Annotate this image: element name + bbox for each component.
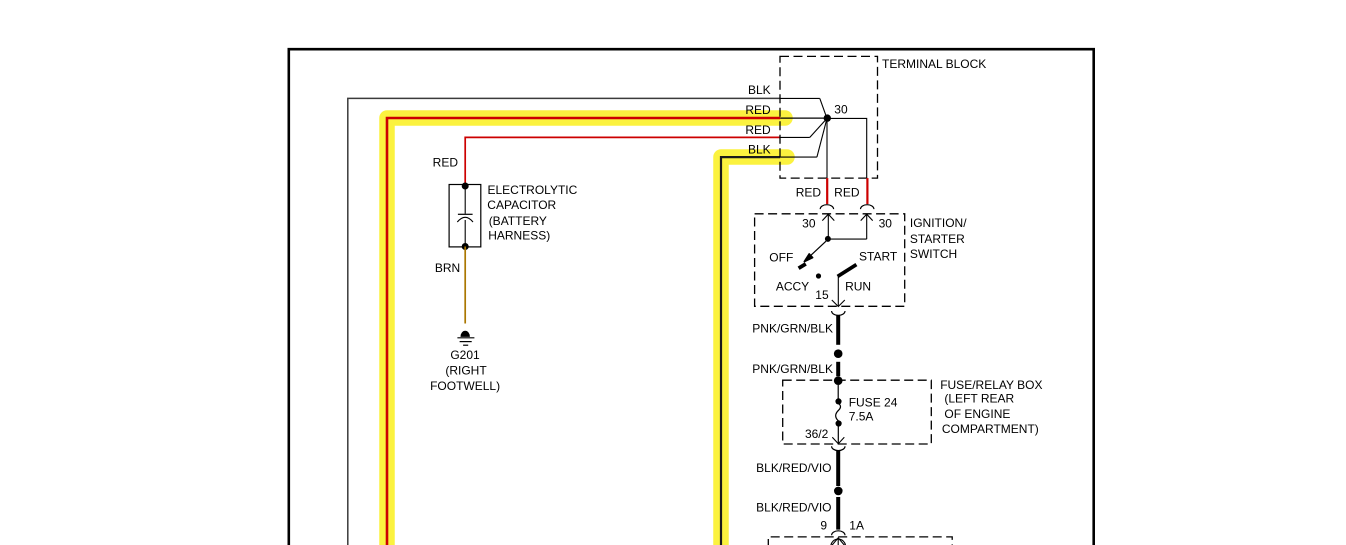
svg-text:FUSE 24: FUSE 24 bbox=[849, 395, 898, 409]
wire BLK (gray) left feed bbox=[348, 98, 780, 545]
ground G201 symbol bbox=[461, 331, 469, 336]
svg-text:30: 30 bbox=[802, 217, 816, 231]
svg-text:HARNESS): HARNESS) bbox=[488, 229, 550, 243]
splice dot lower bbox=[834, 487, 843, 496]
wire into fuse bbox=[837, 385, 839, 399]
wire RED segment left below terminal block bbox=[826, 178, 828, 204]
svg-text:RED: RED bbox=[834, 186, 860, 200]
svg-text:G201: G201 bbox=[450, 348, 480, 362]
svg-text:BLK: BLK bbox=[748, 142, 771, 156]
node 30 junction dot bbox=[824, 114, 831, 121]
connector cup below ignition switch bbox=[832, 311, 845, 315]
svg-text:PNK/GRN/BLK: PNK/GRN/BLK bbox=[752, 362, 833, 376]
capacitor bottom lead bbox=[464, 220, 466, 247]
svg-text:(LEFT REAR: (LEFT REAR bbox=[944, 392, 1014, 406]
capacitor top lead dot bbox=[462, 183, 469, 190]
svg-text:15: 15 bbox=[815, 288, 829, 302]
svg-text:ELECTROLYTIC: ELECTROLYTIC bbox=[488, 183, 578, 197]
wire diagonal RED3 to node bbox=[810, 118, 827, 137]
wire diagonal BLK4 to node bbox=[817, 118, 827, 157]
terminal block dashed box bbox=[780, 56, 878, 178]
wire diagonal BLK1 to node bbox=[820, 98, 827, 118]
svg-text:BLK: BLK bbox=[748, 83, 771, 97]
arrow up left terminal 30 bbox=[827, 214, 829, 239]
wire RED to capacitor bbox=[465, 137, 780, 186]
wire RED segment right below terminal block bbox=[866, 178, 868, 204]
junction dot at fuse box edge bbox=[834, 376, 843, 385]
switch wiper arm toward OFF (arrow) bbox=[810, 241, 826, 256]
svg-text:BLK/RED/VIO: BLK/RED/VIO bbox=[756, 461, 831, 475]
arrow up right terminal 30 bbox=[866, 214, 868, 239]
svg-text:1A: 1A bbox=[849, 518, 864, 532]
svg-text:IGNITION/: IGNITION/ bbox=[910, 216, 967, 230]
terminal circle with arrow (bottom box pin 9) bbox=[831, 539, 846, 545]
ignition/starter switch dashed box bbox=[755, 214, 905, 306]
capacitor flat plate bbox=[458, 213, 473, 215]
svg-text:PNK/GRN/BLK: PNK/GRN/BLK bbox=[752, 321, 833, 335]
svg-text:RED: RED bbox=[745, 123, 771, 137]
capacitor top lead bbox=[464, 186, 466, 214]
capacitor curved plate bbox=[457, 217, 473, 222]
page frame bbox=[289, 49, 1094, 545]
svg-text:TERMINAL BLOCK: TERMINAL BLOCK bbox=[882, 57, 986, 71]
RUN output arrow down (terminal 15) bbox=[837, 277, 839, 307]
electrolytic capacitor box bbox=[449, 185, 481, 247]
wire PNK/GRN/BLK lower bbox=[836, 362, 840, 377]
OFF contact stub bbox=[799, 264, 806, 268]
wire RED2 inside terminal block bbox=[780, 136, 810, 138]
svg-text:RED: RED bbox=[796, 186, 822, 200]
svg-text:FOOTWELL): FOOTWELL) bbox=[430, 379, 500, 393]
svg-text:36/2: 36/2 bbox=[805, 427, 829, 441]
wire BRN to ground bbox=[464, 247, 466, 324]
bottom dashed box bbox=[768, 537, 952, 545]
svg-text:30: 30 bbox=[879, 217, 893, 231]
connector dome left (ignition input 30) bbox=[820, 205, 833, 209]
connector dome right (ignition input 30) bbox=[861, 205, 874, 209]
ACCY contact dot bbox=[816, 273, 821, 278]
svg-text:BRN: BRN bbox=[435, 261, 460, 275]
splice dot bbox=[834, 349, 843, 358]
svg-text:SWITCH: SWITCH bbox=[910, 247, 957, 261]
wire joining both 30 terminals bbox=[828, 238, 866, 240]
svg-text:RED: RED bbox=[433, 156, 459, 170]
svg-text:COMPARTMENT): COMPARTMENT) bbox=[942, 422, 1039, 436]
svg-text:FUSE/RELAY BOX: FUSE/RELAY BOX bbox=[940, 378, 1042, 392]
junction dot switch common bbox=[825, 236, 831, 242]
wire RED battery feed (highlighted) bbox=[387, 118, 780, 545]
connector cup below fuse box bbox=[832, 446, 845, 450]
fuse/relay box dashed bbox=[783, 380, 932, 444]
svg-text:(RIGHT: (RIGHT bbox=[445, 363, 487, 377]
svg-text:OF ENGINE: OF ENGINE bbox=[944, 407, 1010, 421]
connector dome at bottom box bbox=[832, 531, 845, 535]
svg-text:BLK/RED/VIO: BLK/RED/VIO bbox=[756, 500, 831, 514]
wire vertical from node to box bottom bbox=[826, 118, 828, 178]
svg-text:RED: RED bbox=[745, 103, 771, 117]
wire BLK/RED/VIO upper bbox=[836, 451, 840, 486]
highlight yellow over RED battery wire bbox=[387, 118, 785, 545]
svg-text:30: 30 bbox=[834, 102, 848, 116]
wire BLK2 inside terminal block bbox=[780, 156, 817, 158]
highlight yellow over BLK wire bbox=[721, 157, 787, 545]
wire BLK inside terminal block bbox=[780, 97, 820, 99]
wire BLK/RED/VIO lower bbox=[836, 497, 840, 530]
wire L from node to second terminal bbox=[827, 118, 867, 178]
svg-text:OFF: OFF bbox=[769, 251, 793, 265]
wire PNK/GRN/BLK upper bbox=[836, 315, 840, 345]
capacitor bottom dot bbox=[462, 243, 469, 250]
fuse F24 element bbox=[835, 398, 841, 404]
svg-text:START: START bbox=[859, 250, 898, 264]
fuse output arrow down 36/2 bbox=[837, 427, 839, 444]
svg-text:ACCY: ACCY bbox=[776, 280, 809, 294]
svg-text:CAPACITOR: CAPACITOR bbox=[487, 198, 556, 212]
svg-text:STARTER: STARTER bbox=[910, 232, 965, 246]
svg-text:(BATTERY: (BATTERY bbox=[489, 214, 547, 228]
svg-text:7.5A: 7.5A bbox=[849, 410, 874, 424]
svg-text:9: 9 bbox=[820, 519, 827, 533]
wire RED inside terminal block bbox=[780, 117, 827, 119]
svg-text:RUN: RUN bbox=[845, 280, 871, 294]
START contact stub bbox=[838, 265, 857, 277]
wire BLK (highlighted) bbox=[721, 157, 780, 545]
